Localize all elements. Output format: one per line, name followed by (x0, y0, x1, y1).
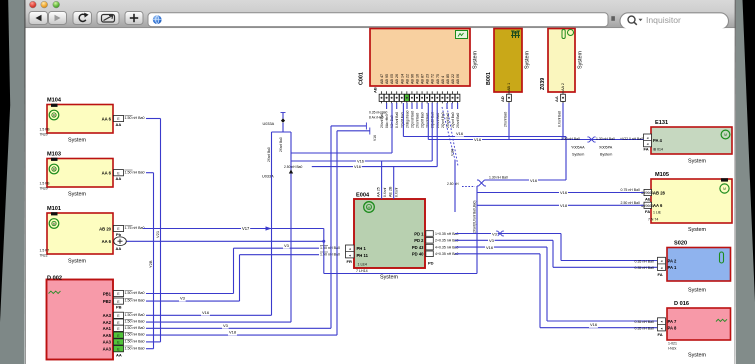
svg-text:FR: FR (347, 259, 352, 264)
svg-text:AB 85: AB 85 (446, 74, 450, 84)
svg-text:4+0.35 nH Ba0: 4+0.35 nH Ba0 (435, 252, 459, 256)
svg-text:FA: FA (658, 332, 663, 337)
svg-text:System: System (68, 138, 86, 144)
component C001 icon (456, 31, 468, 39)
svg-text:1.5 FB: 1.5 FB (40, 128, 51, 132)
wire drop C001 pin to y153 (391, 103, 393, 153)
wire E004 top pin 2 drop (393, 167, 395, 199)
svg-text:PB1: PB1 (103, 291, 112, 296)
wire M101 AA6 horizontal (127, 240, 324, 242)
splice symbol upper (479, 180, 485, 186)
svg-text:System: System (473, 51, 479, 69)
svg-text:1-021: 1-021 (668, 342, 677, 346)
svg-text:PA 7: PA 7 (668, 319, 678, 324)
pin PA 7 of D016 (658, 318, 666, 331)
svg-text:AA 6: AA 6 (102, 116, 112, 121)
wire D002 AA3 short stub to Y2B (146, 348, 154, 350)
svg-text:1.75 nH Ba0: 1.75 nH Ba0 (125, 226, 145, 230)
address field globe favicon (153, 15, 162, 24)
svg-text:1.50 nH Ba0: 1.50 nH Ba0 (125, 291, 145, 295)
svg-text:2Xsnf(8,Xsnf Ba0,Ba0): 2Xsnf(8,Xsnf Ba0,Ba0) (472, 201, 476, 233)
svg-text:iB 014: iB 014 (653, 148, 663, 152)
svg-text:8.Xsnf: 8.Xsnf (383, 188, 387, 197)
wire under E004 horizontal (324, 273, 477, 275)
svg-text:Z039: Z039 (540, 78, 546, 90)
svg-text:2.50 nH Ba0: 2.50 nH Ba0 (284, 165, 302, 169)
wire vertical x566 (565, 137, 567, 181)
svg-text:AA 6: AA 6 (102, 239, 112, 244)
pin AA 6 of M105 (644, 202, 652, 208)
svg-text:Inquisitor: Inquisitor (646, 15, 681, 25)
svg-text:8.Xsnf Ba0: 8.Xsnf Ba0 (395, 112, 399, 128)
svg-text:AA: AA (116, 122, 122, 127)
svg-text:AB 47: AB 47 (380, 74, 384, 84)
svg-text:V3: V3 (492, 231, 498, 236)
component D016 box (667, 308, 731, 340)
traffic light minimize button (41, 1, 48, 8)
svg-text:U033A: U033A (263, 122, 275, 126)
left black wedge over bezel (0, 0, 10, 322)
svg-text:I-N2x: I-N2x (668, 347, 677, 351)
svg-text:AB 22: AB 22 (405, 74, 409, 84)
svg-text:S020: S020 (674, 241, 687, 247)
svg-text:C001: C001 (359, 72, 365, 85)
svg-text:E004: E004 (356, 193, 370, 199)
svg-text:1.30 nH Ba0: 1.30 nH Ba0 (489, 175, 508, 179)
svg-text:AB 16: AB 16 (415, 74, 419, 84)
svg-text:PA 8: PA 8 (668, 326, 678, 331)
svg-text:AB 4: AB 4 (441, 76, 445, 84)
svg-text:◂: ◂ (661, 320, 663, 324)
junction arrow on V17 (266, 226, 272, 230)
svg-text:AB 23: AB 23 (426, 74, 430, 84)
svg-text:V16: V16 (373, 135, 377, 141)
pin PA 2 of S020 (658, 257, 666, 270)
svg-text:AA3: AA3 (103, 347, 112, 352)
svg-text:AB 05: AB 05 (390, 74, 394, 84)
wire riser x477 to M105 feeds (476, 186, 478, 274)
svg-text:U033A: U033A (262, 175, 274, 179)
wire V80 vertical stub (454, 160, 456, 212)
svg-text:AB 87: AB 87 (421, 74, 425, 84)
svg-text:1.5 FB: 1.5 FB (40, 182, 51, 186)
wire left stub pair upper (331, 125, 366, 127)
svg-text:AB 06: AB 06 (456, 74, 460, 84)
svg-text:AA1: AA1 (103, 326, 112, 331)
svg-text:◂: ◂ (349, 247, 351, 251)
pin PA 4 of E131 (644, 134, 652, 147)
svg-text:D 002: D 002 (47, 276, 62, 282)
toolbar reload button (73, 12, 92, 25)
svg-text:System: System (572, 152, 584, 156)
svg-text:AB 14: AB 14 (400, 74, 404, 84)
svg-text:AA: AA (116, 352, 122, 357)
wire D002 AA3 short stub to V21 (146, 341, 161, 343)
wire Z039 drop (562, 103, 564, 140)
field separator nub (611, 16, 615, 21)
svg-text:PD 40: PD 40 (412, 252, 424, 257)
component Z039 icon (562, 30, 565, 39)
svg-text:1.50 nH Ba0: 1.50 nH Ba0 (125, 170, 145, 174)
svg-text:2Qsnf Ba0: 2Qsnf Ba0 (451, 112, 455, 128)
address field (148, 13, 608, 27)
pin AB 28 of M105 (644, 189, 652, 195)
svg-text:Bystem: Bystem (600, 152, 612, 156)
wire to M105 AB28 (477, 192, 644, 194)
svg-text:System: System (578, 51, 584, 69)
svg-text:2.50 nH Ba0: 2.50 nH Ba0 (621, 201, 641, 205)
svg-text:V3: V3 (284, 243, 290, 248)
wire E004 top pin 1 drop (381, 161, 383, 199)
svg-text:1.50 nH Ba0: 1.50 nH Ba0 (125, 340, 145, 344)
svg-text:V16: V16 (530, 178, 538, 183)
wire drop C001 pin to y161 (431, 103, 433, 161)
wire E004 PD2 to S020 PA1 (455, 239, 553, 241)
svg-text:2Qx0f Ba0: 2Qx0f Ba0 (421, 112, 425, 128)
component D002 resistor squiggle (49, 291, 61, 293)
svg-text:2.50 nH: 2.50 nH (447, 182, 459, 186)
wire D002 AA1 to riser x331 (146, 327, 331, 329)
svg-text:1 LiE: 1 LiE (653, 211, 662, 215)
wire drop C001 pin to L1 (402, 103, 404, 137)
component E004 box (354, 199, 425, 268)
svg-text:AA3: AA3 (103, 340, 112, 345)
component M104 motor symbol (49, 110, 59, 120)
wire drop C001 pin to y166.6 (436, 103, 438, 167)
wire E004 PD40 to D016 PA8 (455, 253, 540, 255)
C001 remaining pin stubs (386, 103, 388, 109)
svg-text:V3: V3 (180, 296, 186, 301)
svg-text:V16: V16 (590, 322, 598, 327)
svg-text:0.35 nH Ba0: 0.35 nH Ba0 (369, 111, 387, 115)
svg-text:AA3: AA3 (103, 313, 112, 318)
svg-text:V 80: V 80 (450, 149, 454, 156)
dotted diagonal pair from C001 (442, 107, 455, 160)
svg-text:1.30 nH Ba0: 1.30 nH Ba0 (596, 137, 615, 141)
search magnifier icon (628, 16, 635, 23)
svg-text:AE 2B: AE 2B (389, 186, 393, 197)
svg-text:M101: M101 (47, 206, 61, 212)
svg-text:Pb: Pb (116, 232, 122, 237)
wire D002 AA3 to U033A riser (146, 314, 272, 316)
svg-text:1.50 nH Ba0: 1.50 nH Ba0 (125, 320, 145, 324)
svg-text:Ab: Ab (645, 196, 651, 201)
traffic light close button (29, 1, 36, 8)
svg-text:M105: M105 (655, 172, 669, 178)
svg-text:◂: ◂ (349, 253, 351, 257)
right black wedge over bezel (743, 0, 755, 302)
svg-text:V16: V16 (456, 131, 464, 136)
svg-text:1.30 nH Ba0: 1.30 nH Ba0 (561, 137, 580, 141)
svg-text:AD: AD (500, 96, 505, 102)
wire L1 V16 upper horizontal (403, 136, 566, 138)
svg-text:1.50 nH Ba0: 1.50 nH Ba0 (125, 299, 145, 303)
wire L2 E131 feed horizontal (428, 139, 643, 141)
toolbar back button (29, 12, 48, 25)
svg-text:2Xsnf Ba0: 2Xsnf Ba0 (415, 113, 419, 128)
wire bus Y2B vertical (153, 173, 155, 349)
svg-text:◂: ◂ (661, 326, 663, 330)
svg-text:Y005AA: Y005AA (571, 146, 585, 150)
component D002 box (47, 280, 114, 360)
svg-text:8Ax rHe0: 8Ax rHe0 (385, 114, 389, 128)
svg-text:2Xsnf Ba0: 2Xsnf Ba0 (504, 112, 508, 127)
wire bus V21 vertical (160, 119, 162, 342)
svg-text:PH 1: PH 1 (357, 246, 367, 251)
component C001 box (370, 29, 470, 87)
svg-text:System: System (688, 227, 706, 233)
svg-text:M: M (724, 133, 727, 137)
svg-text:PB2: PB2 (103, 299, 112, 304)
wire riser x337 from D002 AA5 (336, 131, 338, 335)
svg-text:0.35 nH Ba0: 0.35 nH Ba0 (635, 266, 655, 270)
wire U033A elbow (282, 123, 284, 132)
right gray bezel band (734, 0, 755, 364)
svg-text:V18: V18 (560, 203, 568, 208)
left gray bezel band (0, 0, 26, 364)
svg-text:AB: AB (373, 87, 378, 93)
component M103 box (47, 159, 113, 188)
svg-text:2Xsnf Ba0: 2Xsnf Ba0 (436, 113, 440, 128)
svg-text:V17: V17 (242, 226, 250, 231)
svg-text:1+0.35 nH Ba0: 1+0.35 nH Ba0 (435, 232, 459, 236)
svg-text:PD 1: PD 1 (414, 231, 424, 236)
svg-text:PB: PB (116, 305, 122, 310)
svg-text:V16: V16 (354, 164, 361, 169)
svg-text:V16: V16 (560, 190, 568, 195)
component S020 switch icon (720, 252, 724, 263)
component M105 motor symbol (720, 184, 729, 193)
wire y166.6 V16 line (312, 166, 437, 168)
svg-text:1.50 nH Ba0: 1.50 nH Ba0 (125, 116, 145, 120)
svg-text:M: M (368, 206, 371, 210)
wire to M105 AA6 (477, 204, 644, 206)
svg-text:PD 43: PD 43 (412, 245, 424, 250)
svg-text:Y2B: Y2B (148, 260, 153, 268)
svg-text:M103: M103 (47, 152, 61, 158)
svg-text:PD: PD (428, 261, 434, 266)
svg-text:M: M (53, 168, 56, 172)
svg-text:System: System (68, 259, 86, 265)
svg-text:+V22 0 nH Ba0: +V22 0 nH Ba0 (620, 137, 643, 141)
svg-text:AB 95: AB 95 (385, 74, 389, 84)
svg-text:System: System (688, 159, 706, 165)
component E131 motor symbol (721, 130, 730, 139)
svg-text:◂: ◂ (647, 136, 649, 140)
wire M104 AA6 to bus V21 (146, 118, 161, 120)
svg-text:AB 26: AB 26 (395, 74, 399, 84)
svg-text:M104: M104 (47, 98, 62, 104)
svg-text:AB 20: AB 20 (99, 226, 112, 231)
svg-text:AB 28: AB 28 (653, 190, 666, 195)
wire V17 from M101 AB20 horizontal (143, 228, 324, 230)
svg-text:FA: FA (644, 147, 649, 152)
component M105 box (651, 179, 732, 223)
svg-text:M: M (53, 114, 56, 118)
svg-text:0.35 nH Ba0: 0.35 nH Ba0 (635, 259, 655, 263)
svg-text:E131: E131 (655, 120, 668, 126)
junction dot M101 AA6 (322, 240, 325, 243)
wire V16 branch to splice (486, 179, 566, 181)
svg-text:4+0.35 nH Ba0: 4+0.35 nH Ba0 (435, 246, 459, 250)
svg-text:AB 72: AB 72 (431, 74, 435, 84)
component B001 box (494, 29, 522, 93)
svg-text:System: System (380, 275, 398, 281)
svg-text:System: System (68, 192, 86, 198)
svg-text:PA 1: PA 1 (668, 265, 678, 270)
component E004 motor symbol (364, 202, 375, 213)
svg-text:1.50 nH Ba0: 1.50 nH Ba0 (125, 333, 145, 337)
svg-text:2XBgsf Ba0: 2XBgsf Ba0 (405, 110, 409, 128)
svg-text:2Xsnf Ba0: 2Xsnf Ba0 (426, 113, 430, 128)
svg-text:AA5: AA5 (103, 333, 112, 338)
component D016 resistor squiggle (716, 319, 727, 321)
wire E004 PD43 to D016 PA7 (455, 246, 547, 248)
svg-text:◂: ◂ (661, 266, 663, 270)
wire U033A riser x291 (290, 132, 292, 322)
svg-text:AA 6: AA 6 (653, 203, 663, 208)
svg-text:AB 96: AB 96 (410, 74, 414, 84)
svg-text:1.50 nH Ba0: 1.50 nH Ba0 (125, 346, 145, 350)
svg-text:1.50 nH Ba0: 1.50 nH Ba0 (125, 313, 145, 317)
svg-text:2Xsnf Ba0: 2Xsnf Ba0 (279, 137, 283, 152)
svg-text:8.Xsnf Ba0: 8.Xsnf Ba0 (558, 111, 562, 127)
traffic light zoom button (53, 1, 60, 8)
window chrome title+toolbar (25, 0, 736, 28)
svg-text:AA2: AA2 (103, 320, 112, 325)
component E131 box (651, 127, 732, 154)
wire y161 V16 line (291, 160, 432, 162)
svg-text:System: System (525, 51, 531, 69)
svg-text:AA: AA (554, 96, 559, 102)
svg-text:AA 6: AA 6 (102, 171, 112, 176)
wire V17 drop at x324 (323, 229, 325, 274)
wire y153 tap line (291, 152, 392, 154)
svg-text:1.5 F7: 1.5 F7 (40, 249, 50, 253)
svg-text:1.50 nH Ba0: 1.50 nH Ba0 (125, 326, 145, 330)
component M103 motor symbol (49, 164, 59, 174)
wire E004 PD1 to S020 PA2 (455, 233, 561, 235)
svg-text:7N20: 7N20 (40, 133, 48, 137)
component M101 motor symbol (49, 219, 59, 229)
wire U033A riser to AA3 line (271, 132, 273, 315)
svg-text:7N20: 7N20 (40, 187, 48, 191)
svg-text:V3: V3 (489, 238, 495, 243)
svg-text:V16: V16 (357, 159, 364, 164)
wire drop C001 pin to L2 (427, 103, 429, 140)
svg-text:AA 2: AA 2 (561, 83, 565, 91)
svg-text:System: System (688, 353, 706, 359)
wire riser x331 from D002 AA1 (330, 126, 332, 328)
svg-text:AA: AA (116, 246, 122, 251)
svg-text:2Xsnf Ba0: 2Xsnf Ba0 (456, 113, 460, 128)
svg-text:M: M (723, 187, 726, 191)
svg-text:AA: AA (116, 176, 122, 181)
svg-text:B001: B001 (486, 72, 492, 85)
wire M103 AA6 to bus Y2B (146, 172, 154, 174)
svg-text:M: M (53, 222, 56, 226)
wire D002 AA5 to riser x337 (146, 334, 337, 336)
net label V17 (241, 227, 250, 232)
toolbar forward button (49, 12, 67, 25)
svg-text:◂: ◂ (661, 259, 663, 263)
svg-text:7 LH14: 7 LH14 (356, 269, 368, 273)
wire D002 PB1 to E004 PH1 (146, 293, 234, 295)
toolbar add bookmark button (125, 12, 143, 25)
svg-text:X005PA: X005PA (599, 146, 613, 150)
svg-text:1 LE4: 1 LE4 (358, 262, 367, 266)
svg-text:2+0.35 nH Ba0: 2+0.35 nH Ba0 (435, 239, 459, 243)
svg-text:V3: V3 (223, 323, 229, 328)
svg-text:FA: FA (658, 272, 663, 277)
component M104 box (47, 105, 113, 134)
svg-text:AB 22: AB 22 (451, 74, 455, 84)
svg-text:AB 75: AB 75 (436, 74, 440, 84)
svg-text:V21: V21 (155, 230, 160, 238)
wire D002 PB2 to E004 PH11 (146, 300, 240, 302)
svg-text:System: System (688, 288, 706, 294)
svg-text:7.N 74: 7.N 74 (648, 218, 658, 222)
svg-text:AA 25: AA 25 (377, 187, 381, 197)
svg-text:V16: V16 (474, 137, 482, 142)
svg-text:0.35 nH Ba0: 0.35 nH Ba0 (635, 327, 655, 331)
svg-text:V18: V18 (229, 330, 237, 335)
svg-text:FA: FA (645, 209, 650, 214)
U033A inline connector arrow (289, 170, 293, 174)
wire left stub pair lower (337, 130, 370, 132)
svg-text:PD 2: PD 2 (414, 238, 424, 243)
search field (620, 13, 729, 29)
svg-text:V16: V16 (486, 245, 494, 250)
svg-text:PA 4: PA 4 (653, 138, 663, 143)
svg-text:8 Ax rHe0: 8 Ax rHe0 (369, 116, 384, 120)
wire U033A drop upper (282, 113, 284, 121)
component M101 box (47, 213, 113, 254)
component S020 box (667, 248, 731, 282)
svg-text:PH 11: PH 11 (357, 253, 369, 258)
svg-text:8.Xsnf: 8.Xsnf (395, 188, 399, 197)
svg-text:V16: V16 (202, 310, 210, 315)
svg-text:D 016: D 016 (674, 301, 689, 307)
svg-text:AB 1: AB 1 (507, 83, 511, 91)
svg-text:2Qsnsf Ba0: 2Qsnsf Ba0 (410, 111, 414, 128)
svg-text:2Xsnf Ba0: 2Xsnf Ba0 (267, 147, 271, 162)
svg-text:PA 2: PA 2 (668, 258, 678, 263)
toolbar snapback button (97, 12, 119, 25)
PH wire labels (320, 245, 328, 247)
wire D002 AA2 to U033A riser (146, 321, 291, 323)
component B001 icon (511, 31, 520, 38)
svg-text:0.35 nH Ba0: 0.35 nH Ba0 (635, 320, 655, 324)
svg-text:0.75 nH Ba0: 0.75 nH Ba0 (621, 188, 641, 192)
wire B001 drop (508, 103, 510, 140)
svg-text:7N22: 7N22 (40, 254, 48, 258)
component Z039 box (548, 29, 575, 93)
